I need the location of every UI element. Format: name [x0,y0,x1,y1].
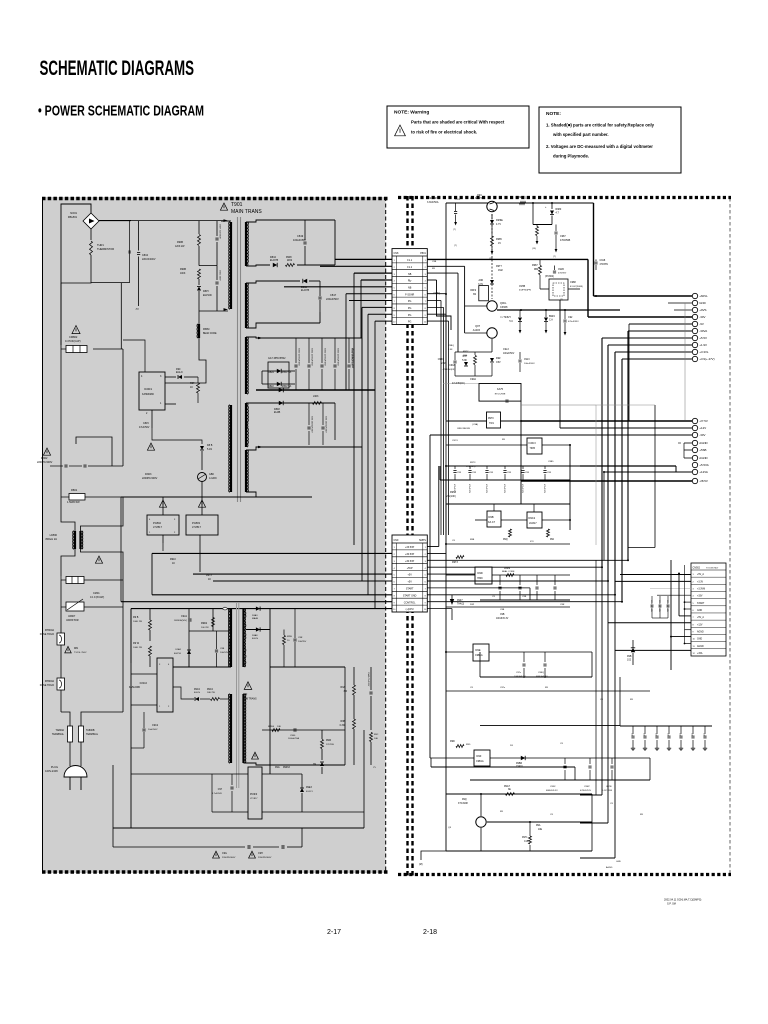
caps under IC907 row y585-600 [499,575,501,585]
wire fuse to terminals [61,690,123,700]
svg-text:AGND: AGND [699,456,707,460]
trunk y345 [608,344,692,346]
svg-text:SMPS: SMPS [419,539,426,542]
wire right chain x354 [353,667,355,685]
svg-text:10E: 10E [374,738,378,740]
svg-text:7905: 7905 [530,447,536,450]
wire to C819 junction [297,264,335,266]
svg-text:TW1: TW1 [489,423,495,425]
wire rails down to filter caps [60,345,62,352]
svg-text:C93X: C93X [550,786,556,788]
warning triangle DN02 [43,448,50,455]
wire Q904 connections [487,821,592,823]
wire sec S5 bottom rail y498 [246,492,312,497]
wire CN902 row3 shaded [650,587,691,589]
wire zener down to LED [201,451,203,470]
photocoupler PC803 box [186,515,218,535]
wire rail y480 [440,479,570,481]
svg-text:C821 1000uF/35V: C821 1000uF/35V [311,348,313,366]
resistor FB904 after IC907 [506,574,514,577]
zener D921b [464,362,468,366]
wire PC outputs to bus [162,535,164,543]
svg-text:R9D2: R9D2 [201,622,208,625]
shaded hot-side region [42,197,386,873]
svg-text:6: 6 [394,294,395,296]
svg-text:FB9M: FB9M [203,328,209,331]
svg-text:CM01: CM01 [93,592,100,595]
wire y481 left x521 [520,481,522,504]
svg-text:R801: R801 [71,488,78,492]
regulator IC909 box y750-766 [474,750,490,766]
wire x570 vertical [569,445,571,530]
svg-text:D9Z: D9Z [470,604,475,606]
wire heavy trunk y317 [588,316,692,318]
svg-text:GND: GND [697,639,702,641]
svg-text:(7): (7) [453,229,456,231]
wire primary bottom stub [206,361,231,363]
wire row2 ext to C91B [465,265,555,267]
svg-text:C9A1: C9A1 [181,615,188,618]
cold-side top dashed border [398,196,731,199]
svg-text:1K: 1K [190,386,193,389]
svg-text:C80Y 2n2/250V: C80Y 2n2/250V [219,224,221,239]
diode D9A8 [256,627,260,631]
output terminal +60V [692,293,697,298]
wire thin mid rail x596 [595,405,597,545]
svg-text:VA807: VA807 [68,615,76,618]
wire bus vertical x152 [151,553,153,594]
wire rail y421 [446,420,585,422]
svg-text:470uF/10V: 470uF/10V [543,484,545,494]
svg-text:+12V: +12V [699,426,706,430]
svg-text:D9B: D9B [627,656,632,658]
svg-text:R9T7: R9T7 [463,351,469,353]
wire x362 segment [361,390,363,447]
svg-text:+3.3VM: +3.3VM [697,589,705,591]
svg-text:CN902: CN902 [693,567,701,570]
wire down to terminals [61,712,70,726]
wire lower row y376 [455,375,492,377]
stub +5SB y450 [684,449,692,451]
wire CN902 row10 from x671 [671,636,691,638]
svg-text:IC9F: IC9F [476,755,482,758]
wire filter output down [90,229,92,240]
wire between regulators y520 [501,519,527,521]
wire PC940 left rail x212 [211,774,213,812]
wire bus 265 to connector [334,220,336,265]
svg-text:(C9A): (C9A) [472,423,478,426]
wire x533 drop [532,203,534,225]
svg-text:NO01: NO01 [70,211,77,215]
svg-text:8: 8 [425,595,426,597]
wire snubber join y311 to winding [199,310,228,312]
svg-text:10: 10 [424,322,426,324]
transformer T901 secondary winding S1 [245,222,247,266]
svg-text:+3.9(+.47V): +3.9(+.47V) [699,357,714,361]
wire bus x588 down [587,259,589,317]
IC002 standby controller box [157,658,173,712]
caps after S4 [308,403,310,425]
svg-text:10E: 10E [277,726,281,728]
wire rail x121.3 down [120,283,122,349]
svg-text:R9063: R9063 [283,767,290,769]
wire riser x608 [607,345,609,581]
transformer T902 secondary winding upper [242,609,244,667]
wire y547 x655 corner [628,547,655,549]
svg-text:C940: C940 [290,735,296,737]
wire CN902 vertical x671 [670,560,672,670]
svg-text:2002.04.11 SCH[.MA.T.C](SMPS: 2002.04.11 SCH[.MA.T.C](SMPS) [664,899,701,902]
resistor R9W4 on y730 [272,729,280,732]
regulator IC905 box [487,511,501,527]
svg-text:(7): (7) [553,256,556,258]
svg-text:R9J: R9J [550,539,554,541]
svg-text:C9BQ: C9BQ [448,345,454,347]
svg-text:MAIN TRANS: MAIN TRANS [231,209,262,215]
wire CN801 row6 y294 [427,293,446,295]
wire CN902 row7 from x679 [678,574,680,616]
svg-text:10E: 10E [538,829,543,831]
wire rail y851 [446,850,592,852]
transformer T902 primary winding lower [230,694,232,763]
svg-text:470/35V: 470/35V [600,264,609,266]
svg-text:800uH 2A: 800uH 2A [45,537,57,541]
svg-text:(+)CPU: (+)CPU [406,608,414,611]
shaded region top dashed border [42,197,389,201]
svg-text:100uF/50V: 100uF/50V [503,353,515,355]
diode D9A3 [256,607,260,611]
svg-text:L903: L903 [313,395,319,398]
photocoupler PC802 box [147,515,179,535]
diode D931 right area [631,648,635,652]
svg-text:U67B: U67B [606,786,612,788]
svg-text:PG: PG [408,307,412,310]
svg-text:D82A: D82A [268,371,274,374]
wire T902 sec top stub [244,608,247,610]
svg-text:455V 5A: 455V 5A [282,371,292,374]
svg-text:+5V_A: +5V_A [697,573,704,576]
svg-text:C9 0.1/C1935: C9 0.1/C1935 [650,600,652,612]
wire second rail junction [91,282,130,284]
svg-text:C916: C916 [455,199,461,201]
wire y405 to x655 [596,404,655,406]
sub trans T902 label [244,682,252,690]
svg-text:START: START [406,588,414,591]
stub AGND y443 [684,442,692,444]
wire opto connections [559,279,561,282]
diode D980 [551,203,553,209]
wire rail y691 long [446,690,650,692]
svg-text:AGND: AGND [697,630,704,633]
smoothing caps row after rectifier [295,338,297,363]
wire IC001 pin1 right [165,403,176,405]
wire left rail to caps row [60,352,62,466]
svg-text:9: 9 [425,315,426,317]
warning triangle PC802 [159,500,166,507]
resistor RW808 [286,264,295,267]
zener D921 [490,358,494,362]
capacitor C940 [231,774,233,785]
svg-text:EU2B: EU2B [274,411,281,414]
svg-text:(M): (M) [419,863,423,866]
capacitor C9R standby [293,638,296,640]
svg-text:2: 2 [394,554,395,556]
svg-text:7809: 7809 [477,577,483,580]
standby clamp diode D9C2 [173,687,194,699]
noise filter diamond FL801 [83,213,99,229]
wire lower left stubs [580,794,602,796]
svg-text:2-17: 2-17 [327,929,341,936]
svg-text:PG: PG [408,314,412,317]
warning triangle PC803 [198,500,205,507]
capacitor C91B above opto [553,270,556,272]
wire IC909 rails [430,757,474,759]
capacitor C817 [295,281,297,296]
svg-text:+5V(10K): +5V(10K) [466,466,476,468]
wire rail y726 long [480,725,620,727]
svg-text:3E: 3E [508,789,511,791]
svg-text:0.47UF(CAP): 0.47UF(CAP) [65,339,81,343]
svg-text:TA800A: TA800A [56,729,65,732]
svg-text:AGND: AGND [699,441,707,445]
svg-text:C83 1000uF/35V: C83 1000uF/35V [311,416,313,433]
wire caps row verticals [49,465,51,467]
shunt regulator KA431 box [479,384,521,402]
trunk y324 [629,323,692,325]
svg-text:+3.3VL: +3.3VL [699,350,709,354]
svg-text:GA7 455V/5H02: GA7 455V/5H02 [268,357,286,360]
wire x364 vertical [363,730,365,828]
wire x345 vertical [344,667,346,765]
svg-text:-30V: -30V [699,315,705,319]
regulator IC908 box y644-661 [473,644,489,661]
transformer T902 primary winding upper [230,609,232,667]
wire vertical x354 from diode bus [353,273,355,545]
svg-text:C91B: C91B [558,269,564,271]
wire snubber join y265.6 [199,265,217,267]
output terminal +9V y310 [674,309,692,311]
connector CN901 lower fold block [392,535,427,612]
wire thermistor down [61,255,91,283]
svg-text:D8 B: D8 B [207,444,213,447]
svg-text:P801: P801 [420,252,426,255]
svg-text:(PC802): (PC802) [545,275,554,278]
svg-text:C92: C92 [568,316,573,319]
svg-text:220uF/50V: 220uF/50V [326,297,339,301]
wire x458 drop [457,273,459,352]
capacitor C80Y snubber [216,221,218,236]
svg-text:100UF/6.3V: 100UF/6.3V [496,618,509,620]
zener D927 [450,599,454,605]
resistor R907 [197,383,200,393]
transformer T901 secondary winding S4 [245,403,247,447]
svg-text:C9B5: C9B5 [548,461,554,463]
svg-text:FUSE HOLD: FUSE HOLD [40,633,55,636]
svg-text:+33.5VP: +33.5VP [405,546,415,549]
svg-text:-7V: -7V [135,308,139,311]
svg-text:(7): (7) [454,245,457,247]
svg-text:PG: PG [408,300,412,303]
svg-text:4: 4 [425,281,426,283]
svg-text:1: 1 [425,260,426,262]
wire riser x615 [614,352,616,595]
components under Q903 [474,356,477,365]
wire heavy y767 rail [431,766,575,768]
transistor Q902 circle [487,301,497,311]
wire R907 down join [165,403,198,411]
wire IC002 bottom pins [131,704,157,706]
svg-text:(15): (15) [532,248,536,250]
svg-text:A9R: A9R [479,279,484,282]
wire bus y595 row8 [152,594,392,596]
svg-text:CM802: CM802 [69,335,78,339]
wire vertical x349 low [348,301,350,575]
svg-text:+30.5VP: +30.5VP [405,553,415,556]
svg-text:R9D: R9D [466,744,471,746]
svg-text:2.5K: 2.5K [448,349,453,351]
svg-text:EGLN: EGLN [176,371,183,374]
wire riser x602 [601,338,603,567]
standby rectifier stub y608 [246,608,270,610]
svg-text:LM317: LM317 [529,522,537,525]
diode D80Y clamp [197,287,201,291]
svg-text:100uF/35V: 100uF/35V [293,238,306,242]
wire heavy y224.5 [533,224,552,226]
wire sec S1 bottom to diode row [246,265,270,266]
svg-text:7: 7 [425,589,426,591]
fuse holder FH800A [57,678,65,690]
zener D919 pair [518,318,522,322]
svg-text:START GND: START GND [403,594,417,597]
diode D82A [277,369,281,373]
capacitor C940b on y730 [293,728,295,731]
wire Q902 collector right [499,305,522,307]
wire standby bottom rail y667 [173,666,231,668]
svg-text:GB0: GB0 [209,473,214,476]
svg-text:C9A5 47uF/25V: C9A5 47uF/25V [367,672,370,687]
svg-text:2200PF/400V: 2200PF/400V [37,461,53,464]
svg-text:C819: C819 [297,234,304,238]
svg-text:7: 7 [394,301,395,303]
wire vertical x362 low [361,307,363,581]
wire noise filter top loop [61,204,91,233]
svg-text:MA4B: MA4B [252,617,258,620]
svg-text:C988: C988 [570,281,576,284]
shaded region left border [42,197,44,873]
svg-text:5.9K: 5.9K [462,359,467,362]
svg-text:C9 0.1/C1935: C9 0.1/C1935 [666,600,668,612]
line filter capsule CM802 [61,348,66,350]
svg-text:C9B: C9B [522,596,527,598]
wire CN902 row8 +12V [608,622,691,624]
wire LED right branch [201,497,203,515]
warning triangle CM801 [95,556,102,563]
wire x592 vertical lower [591,794,593,851]
svg-text:R9Q: R9Q [503,539,508,541]
svg-text:-30VA: -30VA [699,329,707,333]
svg-text:470uF/10V: 470uF/10V [453,484,455,494]
stub AGND2 y458 [684,457,692,459]
svg-text:3: 3 [425,561,426,563]
svg-text:VARISTOR: VARISTOR [66,619,79,622]
capacitor C80Z second [216,266,218,280]
trunk -28.5V y481 [521,480,692,482]
wire y847 caps row [247,845,249,849]
wire top rail corner down x593.5 [593,203,595,296]
svg-text:TERMINAL: TERMINAL [86,733,99,736]
capacitor C92 group [563,319,566,321]
wire sec S2 top stub [246,281,300,283]
svg-text:5.C: 5.C [509,321,513,323]
capacitor C913 mid [518,359,521,361]
svg-text:R9F9: R9F9 [470,290,476,292]
transistor Q901 circle [487,201,497,211]
wire vertical x361 top [360,280,362,338]
wire y435 left vertical x430 [429,435,431,758]
wire x431 vertical low [430,758,432,767]
svg-text:START: START [697,602,705,605]
fuse holder F800 [60,607,62,635]
wire PC940 right pins [262,773,302,775]
svg-text:+3.3V: +3.3V [697,581,704,583]
wire CN801 row1 bus y259 [427,258,588,260]
resistor R910 under PC802 [162,543,164,551]
svg-text:IC9D: IC9D [477,572,483,575]
wire PC940 left pins [212,773,248,775]
svg-text:100K: 100K [180,273,186,275]
zener D976 [490,220,494,224]
svg-text:1. Shaded(■) parts are critica: 1. Shaded(■) parts are critical for safe… [546,123,655,128]
svg-text:PG: PG [408,321,412,324]
zener D806 [200,446,204,450]
svg-text:5: 5 [394,575,395,577]
wire CN801 row2 bus y266 [427,265,464,267]
svg-text:D822: D822 [268,385,274,388]
varistor VA801 [60,580,62,607]
svg-text:9: 9 [394,602,395,604]
svg-text:1S2: 1S2 [627,660,632,662]
svg-text:5: 5 [425,575,426,577]
svg-text:2: 2 [425,267,426,269]
wire x480 y652-677 [479,652,481,677]
svg-text:2. Voltages are DC-measured wi: 2. Voltages are DC-measured with a digit… [546,144,653,149]
diode A9R on dashed line [490,280,494,284]
wire noise filter to transformer [99,220,131,222]
wire CN902 row2 +3.3V [615,580,691,582]
svg-text:R81: R81 [74,648,79,650]
svg-text:Parts that are shaded are crit: Parts that are shaded are critical With … [411,120,505,125]
svg-text:4: 4 [394,568,395,570]
regulator IC903 box [527,438,542,454]
wire between fuse holders [60,645,62,678]
wire PC802 to bus y551 [152,550,163,552]
svg-text:E1 6/7(9088): E1 6/7(9088) [570,286,583,288]
wire CN801 rows 7-10 stubs [427,300,441,302]
wire PC802 pins down [155,535,163,545]
svg-text:A1015: A1015 [473,329,481,332]
svg-text:C9R: C9R [298,637,303,639]
wire rail y600 [480,599,570,601]
svg-text:FB9M: FB9M [504,568,510,570]
svg-text:DN02: DN02 [41,457,48,460]
svg-text:3: 3 [394,274,395,276]
transistor Q904 circle [476,817,486,827]
svg-text:100 2W: 100 2W [201,627,209,629]
svg-text:R9 W: R9 W [133,642,140,645]
wire x480 vertical [479,575,481,600]
wire D807 to R907 [184,376,198,378]
wire x620 riser [619,677,621,726]
